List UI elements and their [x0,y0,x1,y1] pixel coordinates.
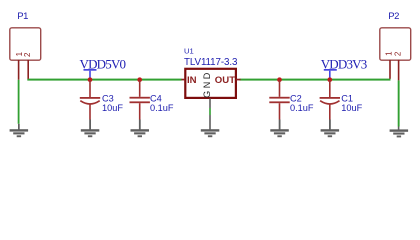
pin GND stub [209,99,211,109]
svg-text:1: 1 [384,51,393,56]
node junction C2 [277,77,282,82]
pin 1 of P1 [18,60,20,80]
connector P2 [380,11,411,60]
ground under C1 [321,120,340,138]
wire [398,80,400,126]
node junction C4 [137,77,142,82]
pin 1 of P2 [389,60,391,79]
power port VDD3V3 [321,56,367,79]
ground under U1 [201,115,220,137]
wire [209,108,211,115]
svg-text:10uF: 10uF [341,103,362,113]
svg-text:0.1uF: 0.1uF [150,103,174,113]
svg-text:OUT: OUT [215,75,235,86]
wire [18,80,20,124]
svg-text:U1: U1 [184,47,194,56]
node junction C3 [88,77,93,82]
pin IN [181,79,185,81]
ground under C4 [131,120,150,138]
wire [27,79,181,81]
connector P1 [10,11,41,60]
wire [240,79,391,81]
pin OUT [236,79,241,81]
svg-text:0.1uF: 0.1uF [290,103,314,113]
capacitor C2 [269,80,314,120]
ground under P1 [10,124,29,137]
capacitor C3 [80,80,124,120]
svg-text:P2: P2 [388,11,399,22]
pin 2 of P2 [398,60,400,81]
svg-text:10uF: 10uF [102,103,123,113]
ground under C2 [270,120,289,138]
svg-text:GND: GND [202,70,212,98]
capacitor C4 [130,80,174,120]
regulator U1 [181,47,240,98]
svg-text:IN: IN [187,75,197,86]
capacitor C1 [320,80,363,120]
ground under P2 [390,127,409,138]
svg-text:2: 2 [23,52,32,57]
svg-text:2: 2 [394,51,403,56]
svg-text:P1: P1 [17,11,28,22]
power port VDD5V0 [80,56,126,79]
pin 2 of P1 [27,60,29,79]
node junction C1 [327,77,332,82]
svg-text:TLV1117-3.3: TLV1117-3.3 [184,57,238,68]
ground under C3 [81,120,100,138]
